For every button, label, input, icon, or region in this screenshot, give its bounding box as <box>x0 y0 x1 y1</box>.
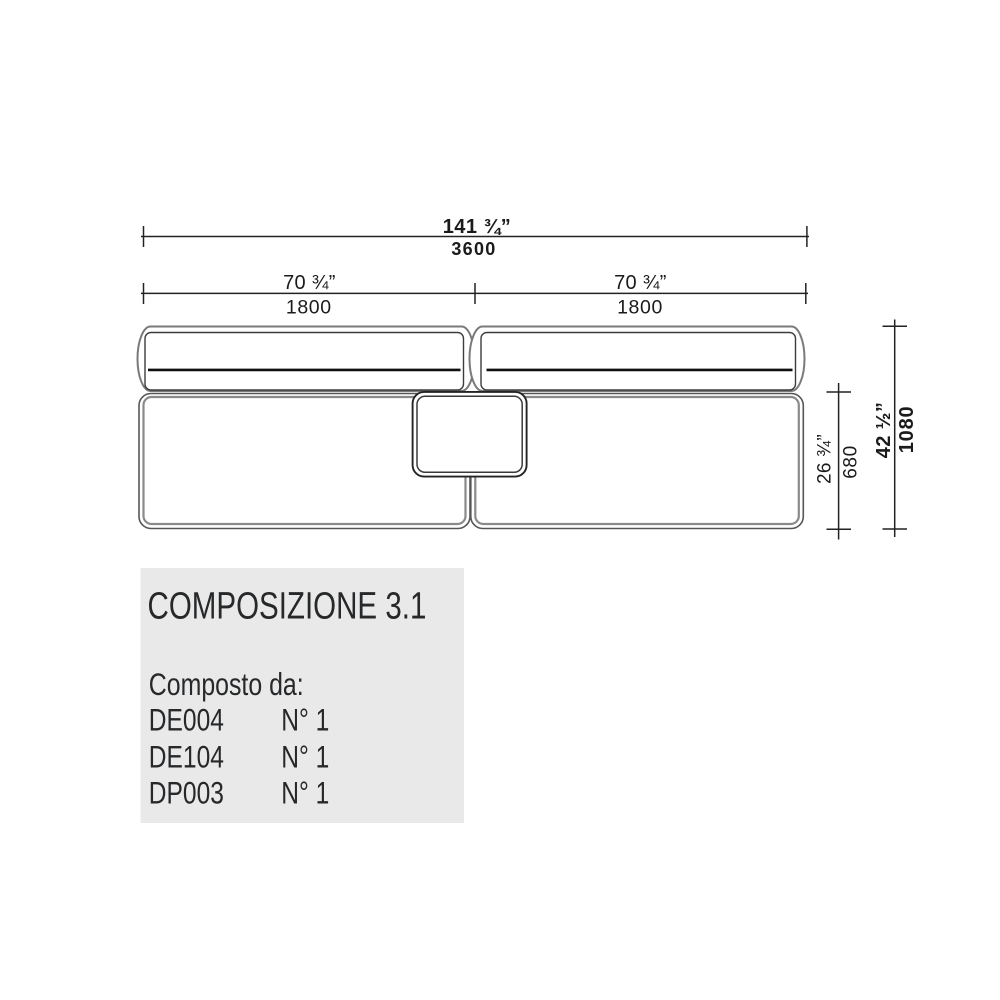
svg-text:DP003: DP003 <box>149 774 224 810</box>
svg-text:3600: 3600 <box>451 239 496 259</box>
svg-text:COMPOSIZIONE 3.1: COMPOSIZIONE 3.1 <box>148 585 427 628</box>
svg-text:N° 1: N° 1 <box>281 702 329 738</box>
backrest right inner outline <box>481 333 796 391</box>
svg-text:141 ¾”: 141 ¾” <box>443 216 512 238</box>
dimension line two 1800 halves <box>141 283 808 304</box>
pouf table DP003 outer outline <box>413 392 527 477</box>
svg-text:N° 1: N° 1 <box>281 774 329 810</box>
svg-text:N° 1: N° 1 <box>281 738 329 774</box>
dimension line 3600 overall width <box>141 226 809 247</box>
svg-text:1800: 1800 <box>286 297 332 319</box>
svg-text:Composto da:: Composto da: <box>149 667 304 703</box>
backrest left inner outline <box>145 333 464 391</box>
svg-text:1080: 1080 <box>896 406 918 454</box>
seat element right inner outline <box>475 397 799 524</box>
svg-text:70 ¾”: 70 ¾” <box>283 272 336 294</box>
seat element left outer outline <box>139 394 470 529</box>
svg-text:70 ¾”: 70 ¾” <box>614 272 667 294</box>
backrest left front edge bold line <box>148 369 461 372</box>
backrest module DE004 left outer outline <box>138 327 475 392</box>
svg-text:42 ½”: 42 ½” <box>873 402 895 458</box>
seat element right outer outline <box>471 394 804 529</box>
svg-text:DE004: DE004 <box>149 702 224 738</box>
svg-text:26 ¾”: 26 ¾” <box>815 434 836 484</box>
dimension line 680 seat depth <box>827 383 852 540</box>
svg-text:DE104: DE104 <box>149 738 224 774</box>
backrest module DE104 right outer outline <box>470 327 805 392</box>
seat element left inner outline <box>144 397 466 524</box>
composition info gray panel <box>141 568 465 823</box>
svg-text:1800: 1800 <box>617 297 663 319</box>
pouf table DP003 inner outline <box>417 396 522 472</box>
dimension line 1080 overall depth <box>883 320 908 538</box>
backrest right front edge bold line <box>487 369 793 372</box>
svg-text:680: 680 <box>840 445 861 479</box>
